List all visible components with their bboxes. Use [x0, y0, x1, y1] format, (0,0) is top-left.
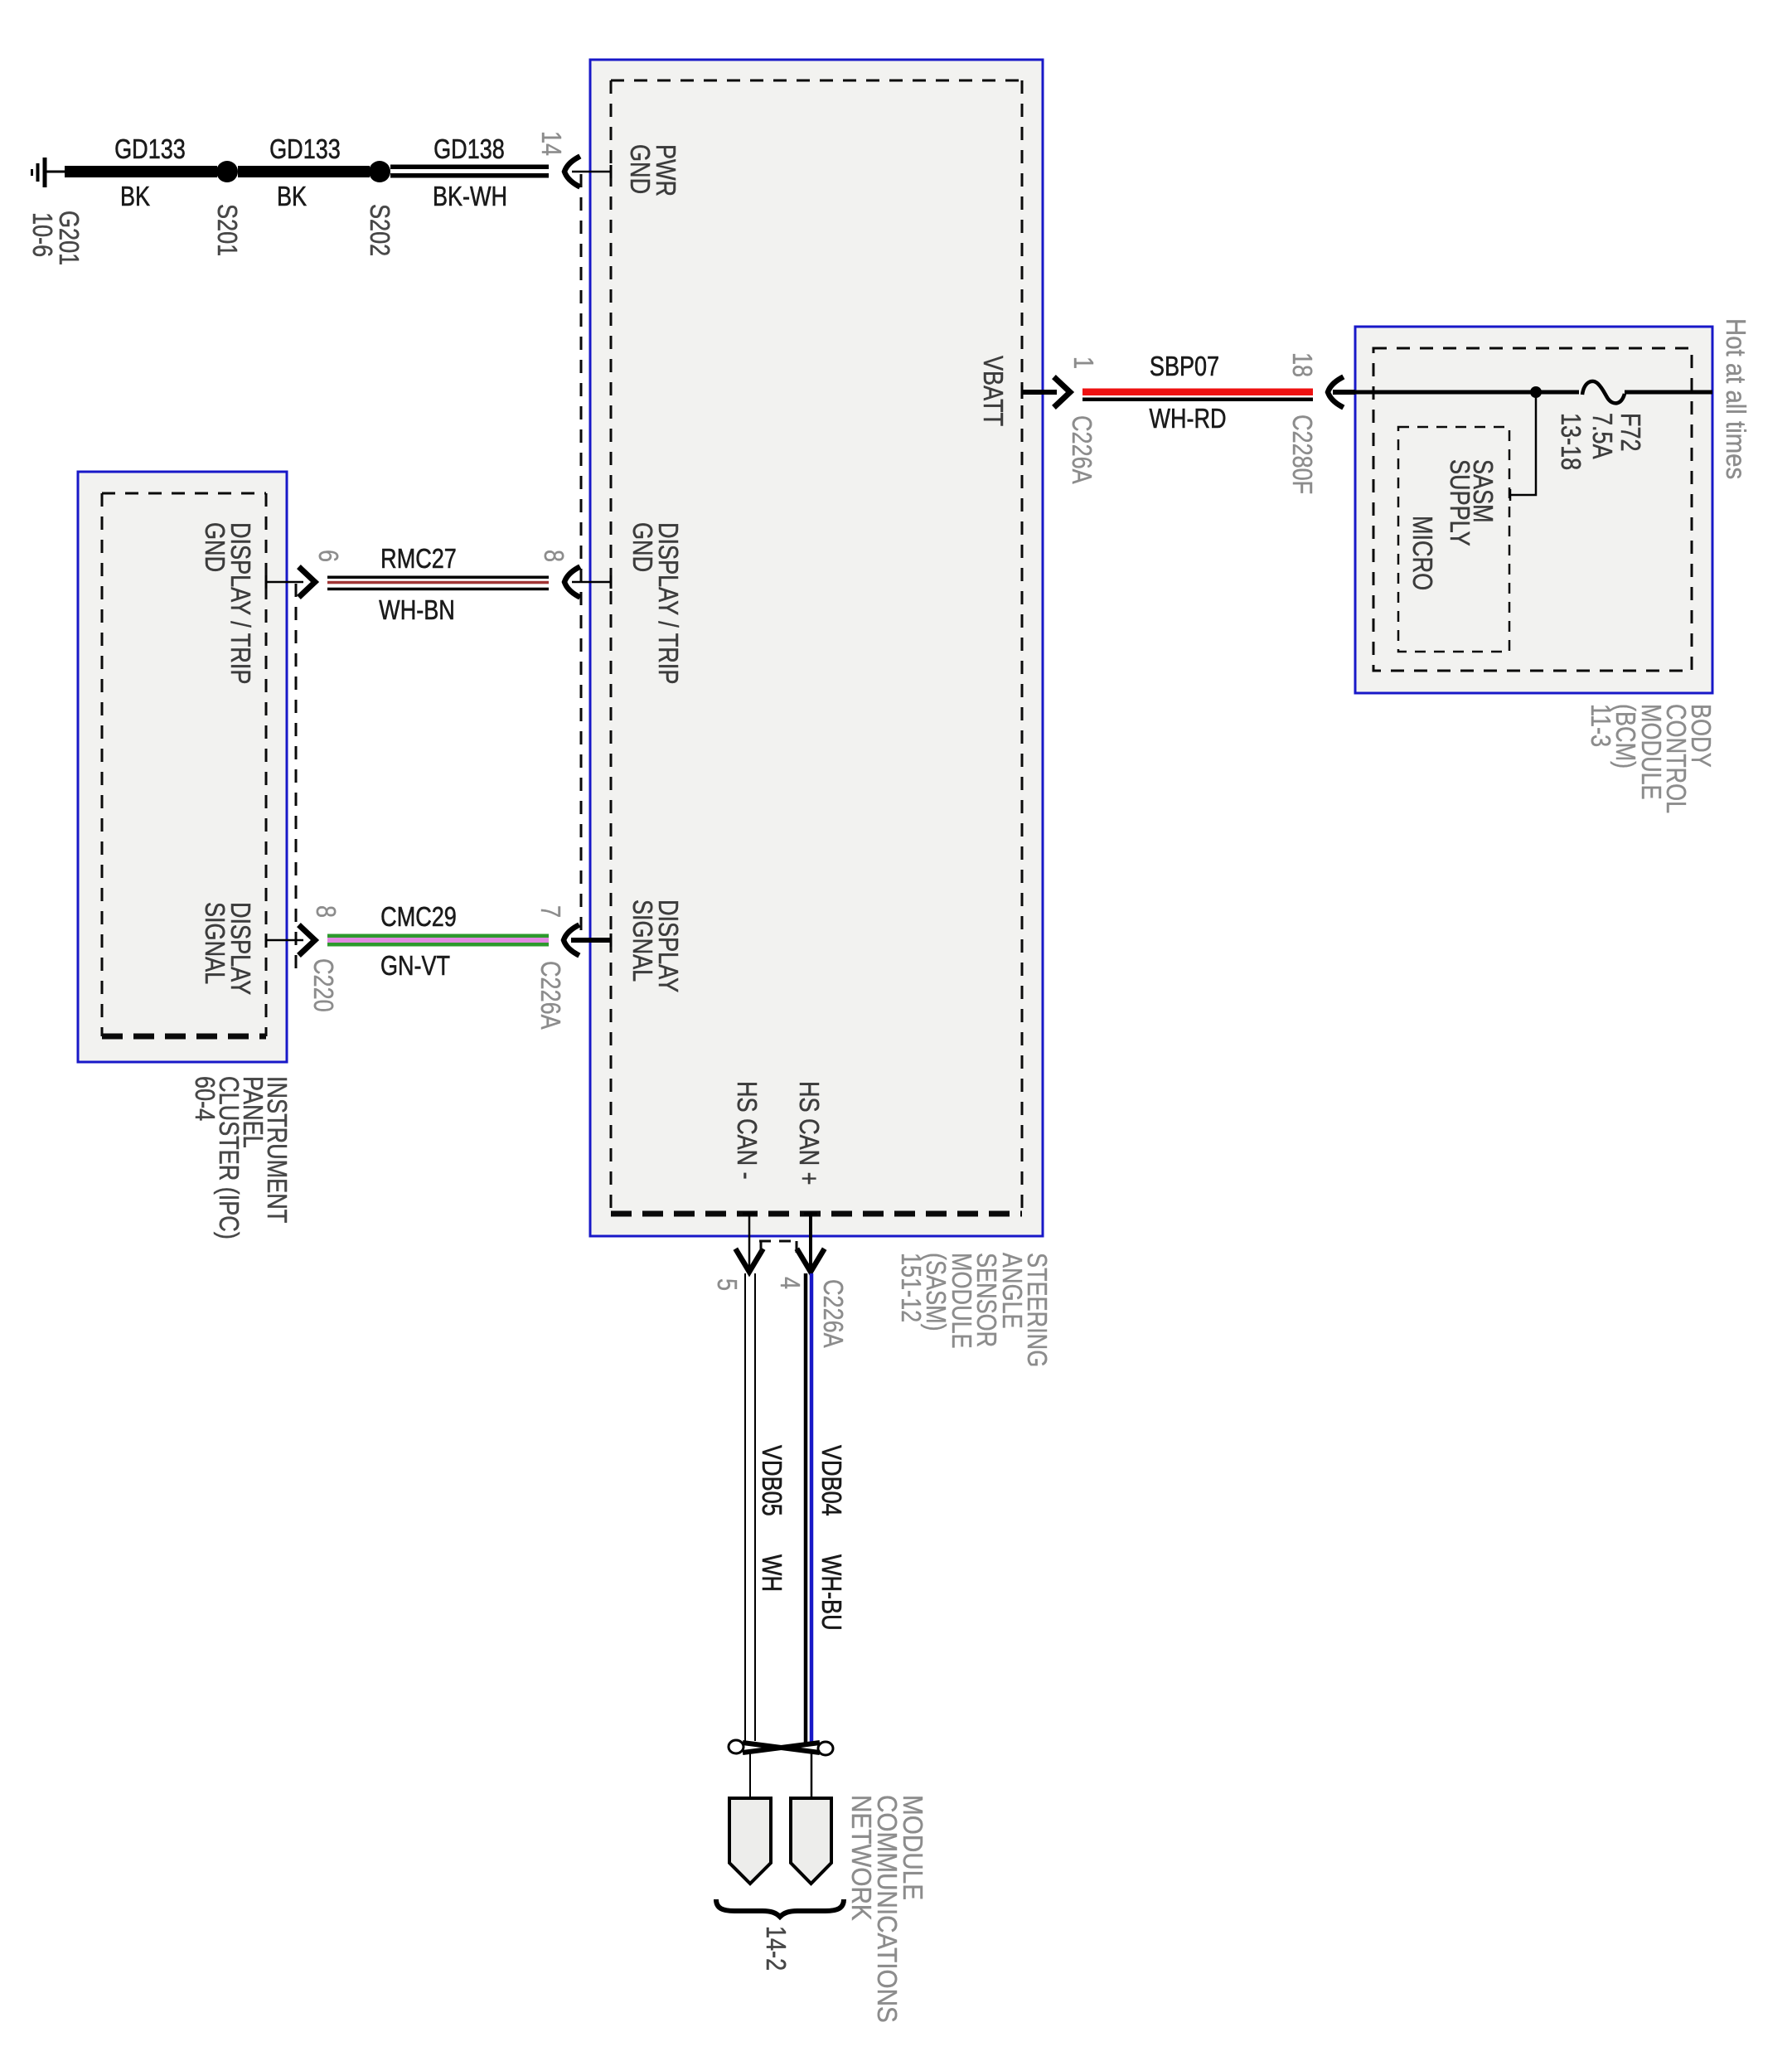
svg-text:BK-WH: BK-WH: [433, 182, 507, 212]
svg-text:C226A: C226A: [817, 1279, 847, 1348]
svg-text:18: 18: [1286, 352, 1316, 377]
svg-text:CMC29: CMC29: [380, 903, 457, 933]
female terminal at SASM pin 14: [564, 158, 578, 186]
wire lead IPC pin 8 (display signal): [266, 939, 303, 942]
SASM pin 4 wire stub (HS CAN +): [809, 1214, 812, 1268]
svg-text:GND: GND: [624, 144, 654, 194]
svg-text:10-6: 10-6: [27, 212, 56, 257]
BCM inner dashed boundary: [1373, 348, 1692, 671]
svg-text:60-4: 60-4: [189, 1076, 219, 1121]
svg-text:F72: F72: [1615, 413, 1644, 452]
female terminal at SASM pin 7: [564, 926, 577, 954]
svg-text:GD133: GD133: [269, 135, 341, 165]
svg-text:14: 14: [535, 131, 565, 156]
svg-text:HS CAN -: HS CAN -: [731, 1081, 761, 1180]
labels: horizontal wire names: [114, 135, 1226, 982]
svg-text:VDB04: VDB04: [816, 1445, 845, 1516]
IPC module box (INSTRUMENT PANEL CLUSTER): [78, 472, 287, 1062]
svg-text:8: 8: [310, 905, 340, 918]
svg-text:14-2: 14-2: [760, 1926, 790, 1971]
svg-text:Hot at all times: Hot at all times: [1721, 318, 1751, 479]
MICRO inner dashed box: [1398, 427, 1509, 652]
pin tick SASM pin 7: [610, 934, 613, 947]
splice S201: [216, 161, 238, 182]
SASM pin 5 wire stub (HS CAN -): [748, 1214, 751, 1268]
female terminal at BCM pin 18: [1328, 378, 1341, 406]
SASM module box (STEERING ANGLE SENSOR MODULE): [590, 60, 1043, 1236]
svg-text:5: 5: [711, 1278, 741, 1291]
male terminal at SASM pin 1: [1056, 379, 1070, 405]
male terminal down at pin 5: [737, 1251, 762, 1272]
svg-text:S202: S202: [364, 204, 394, 256]
svg-text:VBATT: VBATT: [977, 356, 1007, 426]
pin tick IPC pin 6: [265, 575, 268, 589]
wire CMC29 GN-VT (green with violet stripe): [327, 934, 549, 947]
ground G201 symbol: [32, 158, 67, 187]
wire GD138 BK-WH (black with white stripe): [390, 165, 549, 178]
svg-text:BK: BK: [277, 182, 307, 212]
wire SBP07 WH-RD (red with black line): [1082, 389, 1313, 396]
svg-text:SIGNAL: SIGNAL: [199, 902, 229, 984]
svg-text:13-18: 13-18: [1555, 413, 1585, 470]
pin tick SASM pin 5: [743, 1213, 756, 1215]
svg-text:GD133: GD133: [114, 135, 186, 165]
svg-text:HS CAN +: HS CAN +: [793, 1081, 823, 1185]
svg-text:RMC27: RMC27: [380, 545, 457, 575]
fuse F72 element: [1582, 381, 1625, 404]
wire GD133 BK segment 1 (thick): [65, 166, 217, 177]
svg-text:SUPPLY: SUPPLY: [1444, 459, 1474, 546]
connector C226A dashed fragment at pins 4/5: [759, 1240, 798, 1243]
svg-text:GND: GND: [627, 522, 656, 572]
pin tick SASM pin 14: [610, 165, 613, 178]
svg-text:GN-VT: GN-VT: [380, 952, 450, 982]
twisted pair symbol: [729, 1740, 833, 1755]
BCM internal VBATT wire (thick) with fuse gap: [1355, 390, 1579, 395]
SASM inner dashed boundary: [611, 80, 1022, 82]
wire VDB04 WH-BU (black + blue pair): [804, 1273, 808, 1743]
male terminal at IPC pin 6: [301, 569, 315, 595]
svg-text:BK: BK: [120, 182, 150, 212]
wire lead into SASM pin 14: [572, 171, 611, 173]
svg-text:WH-RD: WH-RD: [1149, 405, 1226, 434]
svg-text:11-3: 11-3: [1585, 704, 1615, 747]
thick wire lead SASM pin 1 VBATT: [1023, 390, 1057, 395]
male terminal down at pin 4: [798, 1251, 823, 1272]
svg-text:C220: C220: [308, 958, 337, 1012]
pin tick SASM pin 8: [610, 575, 613, 589]
svg-text:MICRO: MICRO: [1407, 516, 1436, 590]
wire below twist right: [811, 1751, 813, 1798]
svg-text:G201: G201: [53, 211, 83, 265]
svg-text:SBP07: SBP07: [1150, 352, 1219, 382]
svg-text:GD138: GD138: [433, 135, 505, 165]
wire lead into SASM pin 8: [572, 581, 611, 584]
svg-text:C226A: C226A: [1066, 415, 1096, 484]
svg-text:GND: GND: [199, 522, 229, 572]
BCM module box (BODY CONTROL MODULE): [1355, 327, 1712, 693]
wire VDB05 WH (double thin line): [744, 1273, 746, 1741]
svg-text:7: 7: [535, 905, 564, 918]
svg-text:6: 6: [312, 550, 342, 562]
svg-text:8: 8: [538, 550, 568, 562]
svg-text:WH-BU: WH-BU: [816, 1554, 845, 1631]
svg-text:WH: WH: [756, 1554, 786, 1592]
svg-text:C226A: C226A: [535, 961, 564, 1030]
svg-text:151-12: 151-12: [895, 1253, 925, 1322]
off-page connector (right): [791, 1798, 831, 1884]
wire lead IPC pin 6: [266, 581, 303, 584]
off-page connector (left): [729, 1798, 771, 1884]
svg-text:4: 4: [774, 1277, 804, 1289]
svg-text:SIGNAL: SIGNAL: [627, 900, 656, 982]
thick wire lead into BCM: [1333, 390, 1355, 395]
wire below twist left: [749, 1751, 751, 1798]
svg-text:WH-BN: WH-BN: [379, 596, 455, 626]
pin tick SASM pin 4: [804, 1213, 817, 1215]
brace to network 14-2: [716, 1899, 844, 1917]
connector C220 dashed line along IPC right: [295, 584, 298, 968]
IPC inner dashed boundary: [102, 492, 266, 495]
pin tick IPC pin 8: [265, 934, 268, 947]
wire RMC27 WH-BN (two black lines with brown stripe): [327, 576, 549, 580]
wire GD133 BK segment 2 (thick): [238, 166, 370, 177]
svg-text:7.5A: 7.5A: [1586, 413, 1616, 459]
svg-text:1: 1: [1068, 356, 1097, 369]
thick wire lead into SASM pin 7: [571, 938, 611, 943]
female terminal at SASM pin 8: [564, 568, 578, 596]
junction node on VBATT wire: [1530, 386, 1542, 398]
pin tick SASM pin 1: [1021, 386, 1024, 399]
svg-text:VDB05: VDB05: [756, 1445, 786, 1516]
svg-text:S201: S201: [211, 204, 241, 256]
svg-text:NETWORK: NETWORK: [846, 1795, 877, 1921]
pin tick SASM SUPPLY: [1509, 489, 1512, 501]
connector C226A dashed line along SASM left: [580, 174, 583, 940]
splice S202: [369, 161, 390, 182]
wire from junction to SASM SUPPLY: [1510, 395, 1536, 495]
svg-text:C2280F: C2280F: [1286, 415, 1316, 494]
male terminal at IPC pin 8: [301, 927, 315, 953]
